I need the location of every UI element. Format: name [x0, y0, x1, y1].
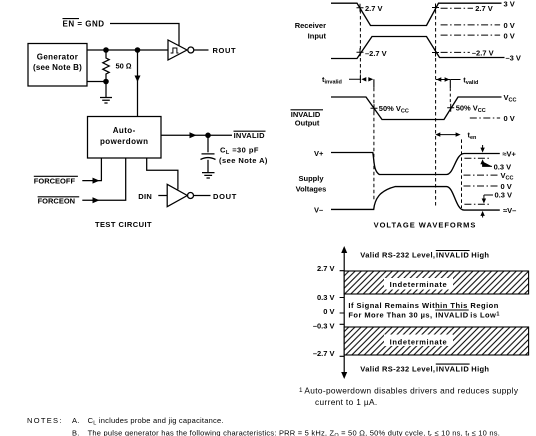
arrowhead FORCEOFF [93, 178, 100, 184]
svg-text:CL =30 pF: CL =30 pF [220, 146, 259, 157]
svg-text:(see Note A): (see Note A) [219, 156, 268, 165]
arrowhead tinvalid left [361, 77, 366, 81]
bubble U2 [188, 193, 194, 199]
svg-text:FORCEON: FORCEON [38, 197, 76, 206]
cross 2.7V right [432, 4, 439, 12]
svg-text:2.7 V: 2.7 V [317, 264, 335, 273]
svg-text:High: High [471, 364, 489, 373]
svg-text:0 V: 0 V [504, 114, 515, 123]
cross 2.7V left [357, 4, 364, 12]
wire node to auto-powerdown [137, 50, 139, 117]
dash-dot -2.7V level [441, 51, 470, 53]
svg-text:High: High [471, 251, 489, 260]
svg-text:V–: V– [314, 206, 323, 215]
svg-text:TEST CIRCUIT: TEST CIRCUIT [95, 220, 152, 229]
svg-text:–2.7 V: –2.7 V [365, 49, 387, 58]
svg-text:Generator: Generator [37, 53, 78, 62]
svg-text:INVALID: INVALID [234, 131, 266, 140]
receiver input top trace [331, 3, 502, 25]
dash-dot 2.7V level [441, 7, 473, 9]
svg-text:EN = GND: EN = GND [63, 20, 105, 29]
arrowhead 0.3V to V+ line [480, 148, 484, 153]
dashed vertical valid crossing [435, 10, 437, 207]
label EN = GND [33, 19, 268, 229]
svg-text:B.: B. [72, 429, 80, 436]
receiver input bottom trace [331, 37, 505, 59]
wire capacitor to ground [207, 160, 209, 172]
svg-text:2.7 V: 2.7 V [365, 4, 383, 13]
svg-text:current to 1 µA.: current to 1 µA. [315, 397, 378, 407]
arrowhead tvalid left [436, 77, 441, 81]
svg-text:≈V+: ≈V+ [502, 150, 516, 159]
wire DIN enable [147, 158, 178, 190]
tvalid extension line [436, 79, 461, 81]
arrowhead ten right [456, 132, 461, 136]
dash-dot 0V upper level [441, 24, 501, 26]
dashed vertical tvalid right boundary [449, 80, 451, 89]
hysteresis symbol [171, 48, 179, 53]
ten dimension line [438, 134, 458, 136]
svg-text:0 V: 0 V [504, 31, 515, 40]
resistor R 50 ohm [103, 50, 109, 82]
wire INVALID output [161, 134, 232, 136]
svg-text:(see Note B): (see Note B) [33, 63, 82, 72]
svg-text:For More Than 30 µs,: For More Than 30 µs, [348, 310, 432, 319]
arrowhead 0.3V up lower [480, 211, 484, 216]
dash-dot 0V supply level [464, 185, 500, 187]
arrowhead 0.3V up [480, 159, 484, 164]
svg-text:ROUT: ROUT [213, 46, 237, 55]
svg-text:A.: A. [72, 416, 80, 425]
node B (receiver input tee) [135, 47, 141, 53]
svg-text:V+: V+ [314, 149, 324, 158]
dashed vertical tinvalid right boundary [373, 79, 375, 87]
dash-dot V- plus 0.3 level [464, 203, 490, 205]
svg-text:3 V: 3 V [504, 0, 515, 9]
svg-text:–2.7 V: –2.7 V [313, 349, 335, 358]
hatched region lower indeterminate [344, 327, 528, 355]
label window lower [384, 335, 453, 347]
wire generator top output [87, 49, 168, 51]
auto-powerdown box [88, 117, 162, 159]
svg-text:powerdown: powerdown [100, 137, 149, 146]
svg-text:Valid RS-232 Level,: Valid RS-232 Level, [360, 364, 435, 373]
footnote 1 auto-powerdown [299, 386, 519, 407]
op-amp U2 driver [167, 184, 187, 206]
0.3V lower annotation leader [483, 195, 493, 218]
node A (gen top / resistor) [103, 47, 109, 53]
cross -2.7V left [357, 48, 364, 56]
svg-text:–0.3 V: –0.3 V [313, 322, 335, 331]
svg-text:≈V–: ≈V– [503, 206, 516, 215]
svg-text:2.7 V: 2.7 V [475, 4, 493, 13]
svg-text:–2.7 V: –2.7 V [472, 49, 494, 58]
cross 50% Vcc right [447, 104, 454, 112]
op-amp U1 receiver buffer [168, 40, 187, 60]
svg-text:Indeterminate: Indeterminate [390, 280, 448, 289]
svg-text:DOUT: DOUT [213, 192, 237, 201]
dash-dot 0V INVALID level [470, 117, 500, 119]
tinvalid dimension line [349, 75, 360, 83]
svg-text:The pulse generator has the fo: The pulse generator has the following ch… [88, 429, 500, 436]
svg-text:0.3 V: 0.3 V [494, 163, 512, 172]
svg-text:CL includes probe and jig capa: CL includes probe and jig capacitance. [88, 416, 224, 427]
svg-text:Auto-: Auto- [113, 126, 136, 135]
svg-text:INVALID: INVALID [435, 310, 468, 319]
arrowhead 0.3V down lower [482, 199, 486, 204]
svg-text:1Auto-powerdown disables drive: 1Auto-powerdown disables drivers and red… [299, 386, 519, 396]
svg-text:0.3 V: 0.3 V [317, 293, 335, 302]
wire capacitor top [207, 138, 209, 152]
wire generator bottom to resistor bottom [87, 81, 106, 83]
dash-dot 0V lower level [441, 34, 501, 36]
arrowhead tinvalid right [368, 77, 373, 81]
ground (capacitor) [202, 173, 215, 178]
arrowhead tvalid right [445, 77, 450, 81]
svg-text:DIN: DIN [138, 192, 152, 201]
wire DOUT [194, 195, 211, 197]
svg-text:0 V: 0 V [323, 307, 334, 316]
node C (resistor bottom) [103, 79, 109, 85]
svg-text:Valid RS-232 Level,: Valid RS-232 Level, [360, 251, 435, 260]
hatched region upper indeterminate [344, 271, 528, 294]
dash-dot Vcc supply level [464, 174, 500, 176]
0.3V upper annotation leader [483, 145, 492, 166]
svg-text:NOTES:: NOTES: [27, 416, 63, 425]
axis level ticks [340, 271, 345, 357]
cross 50% Vcc left [371, 104, 378, 112]
ground (generator) [100, 98, 112, 104]
svg-text:If Signal Remains Within This: If Signal Remains Within This Region [348, 301, 498, 310]
arrowhead ten left [435, 132, 440, 136]
svg-text:Supply: Supply [298, 174, 324, 183]
svg-text:INVALID: INVALID [436, 251, 469, 260]
svg-text:Receiver: Receiver [295, 21, 326, 30]
generator box [28, 44, 87, 87]
node D (INVALID / capacitor) [205, 133, 211, 139]
wire EN=GND to receiver enable [110, 24, 179, 46]
svg-text:Indeterminate: Indeterminate [390, 338, 448, 347]
bubble U1 [188, 47, 194, 53]
dashed vertical ten right boundary [461, 139, 463, 208]
INVALID output trace [331, 97, 502, 120]
supply V- trace [331, 187, 500, 211]
wire DIN input [158, 195, 167, 197]
wire FORCEOFF [82, 158, 101, 181]
dashed vertical at 2.7V crossing [359, 10, 361, 83]
arrowhead FORCEON [93, 197, 100, 203]
svg-text:0.3 V: 0.3 V [495, 190, 513, 199]
svg-text:Input: Input [308, 31, 327, 40]
svg-text:50 Ω: 50 Ω [116, 62, 132, 71]
axis vertical arrow [343, 249, 345, 376]
arrowhead INVALID [190, 132, 197, 138]
label window upper [384, 278, 453, 290]
wire resistor to ground [105, 82, 107, 98]
wire FORCEON [82, 158, 125, 200]
svg-text:INVALID: INVALID [436, 364, 469, 373]
cross -2.7V right [432, 49, 439, 57]
svg-text:0 V: 0 V [504, 21, 515, 30]
dash-dot V+ minus 0.3 level [464, 157, 490, 159]
wire ROUT [194, 49, 209, 51]
svg-text:VOLTAGE WAVEFORMS: VOLTAGE WAVEFORMS [374, 220, 477, 229]
capacitor C_L [201, 154, 216, 160]
arrowhead into auto-powerdown [135, 76, 141, 83]
svg-text:–3 V: –3 V [506, 54, 521, 63]
supply V+ trace [331, 153, 500, 175]
svg-text:Output: Output [295, 119, 320, 128]
svg-text:Voltages: Voltages [296, 185, 327, 194]
svg-text:FORCEOFF: FORCEOFF [34, 176, 76, 185]
svg-text:is Low1: is Low1 [470, 310, 500, 319]
